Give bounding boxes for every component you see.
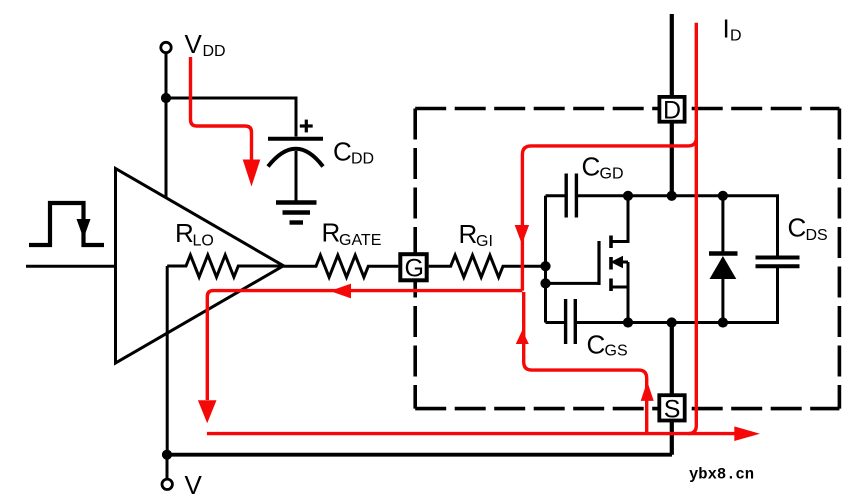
capacitor CGS	[546, 299, 576, 344]
wire drain line	[670, 14, 674, 196]
junction drain rail	[667, 191, 677, 201]
svg-text:GI: GI	[476, 233, 493, 250]
label CGS	[587, 330, 628, 360]
op-amp driver triangle	[116, 169, 284, 364]
wire source line	[670, 323, 674, 455]
label VDD	[185, 29, 226, 60]
wire top rail	[576, 196, 777, 256]
junction diode top	[718, 191, 728, 201]
dashed MOSFET model boundary box	[415, 109, 839, 409]
resistor RLO	[167, 255, 283, 277]
capacitor CGD	[546, 174, 577, 218]
ground	[276, 203, 317, 223]
resistor RGI	[429, 255, 546, 277]
capacitor CDS	[756, 258, 800, 267]
label ID	[723, 14, 742, 45]
svg-text:V: V	[185, 470, 203, 500]
svg-text:C: C	[333, 137, 352, 167]
svg-text:DD: DD	[203, 43, 226, 60]
svg-text:LO: LO	[193, 233, 214, 250]
wire RLO pulldown to V rail	[166, 266, 169, 455]
plus sign of CDD	[300, 120, 313, 133]
svg-text:R: R	[175, 218, 194, 248]
wire red drain current ID line	[688, 23, 696, 434]
junction diode bottom	[718, 317, 728, 327]
label RGATE	[322, 218, 382, 250]
junction gate node	[540, 261, 550, 271]
junction MOSFET source on bottom rail	[623, 317, 633, 327]
wire driver input	[26, 265, 116, 268]
svg-text:GATE: GATE	[339, 232, 381, 249]
wire bottom rail	[575, 268, 777, 323]
svg-text:G: G	[405, 255, 424, 283]
label CDD	[333, 137, 374, 168]
wire red Miller current branch to gate node	[515, 138, 697, 291]
svg-text:S: S	[664, 395, 681, 423]
junction gate lead node	[540, 278, 550, 288]
junction V node	[162, 450, 172, 460]
node S box	[659, 395, 684, 423]
junction MOSFET drain on top rail	[623, 191, 633, 201]
wire red CGS current path up to gate	[516, 292, 654, 434]
input pulse waveform	[29, 203, 104, 245]
label CGD	[582, 152, 624, 183]
watermark ybx8.cn	[689, 466, 754, 484]
wire bottom V rail	[167, 453, 672, 457]
node D box	[659, 97, 684, 125]
svg-text:R: R	[459, 219, 478, 249]
svg-text:D: D	[730, 28, 742, 45]
diode body diode	[709, 196, 738, 323]
wire VDD vertical	[165, 53, 168, 198]
svg-text:C: C	[582, 152, 601, 182]
svg-text:C: C	[587, 330, 606, 360]
svg-text:DS: DS	[806, 227, 828, 244]
capacitor CDD	[268, 139, 323, 201]
svg-text:D: D	[663, 97, 681, 125]
label CDS	[788, 213, 828, 245]
resistor RGATE	[284, 255, 399, 277]
wire red gate discharge path to driver and down	[198, 284, 523, 424]
wire red current path VDD into CDD	[191, 57, 261, 187]
svg-text:GD: GD	[600, 166, 624, 183]
transistor MOSFET	[546, 196, 629, 323]
svg-text:ybx8.cn: ybx8.cn	[689, 466, 754, 484]
node G box	[400, 254, 426, 282]
label RGI	[459, 219, 493, 250]
terminal VDD	[161, 42, 171, 52]
svg-text:R: R	[322, 218, 341, 248]
terminal V	[162, 455, 172, 490]
svg-text:I: I	[723, 14, 730, 44]
svg-text:C: C	[788, 213, 807, 243]
svg-text:GS: GS	[605, 343, 628, 360]
wire VDD to CDD	[166, 98, 296, 137]
wire red bottom return path	[207, 426, 760, 441]
label RLO	[175, 218, 214, 250]
svg-text:V: V	[185, 29, 203, 59]
svg-text:DD: DD	[351, 151, 374, 168]
wire MOSFET cell left vertical	[544, 196, 547, 323]
junction source rail	[667, 317, 677, 327]
junction VDD node	[161, 93, 171, 103]
label V	[185, 470, 203, 500]
